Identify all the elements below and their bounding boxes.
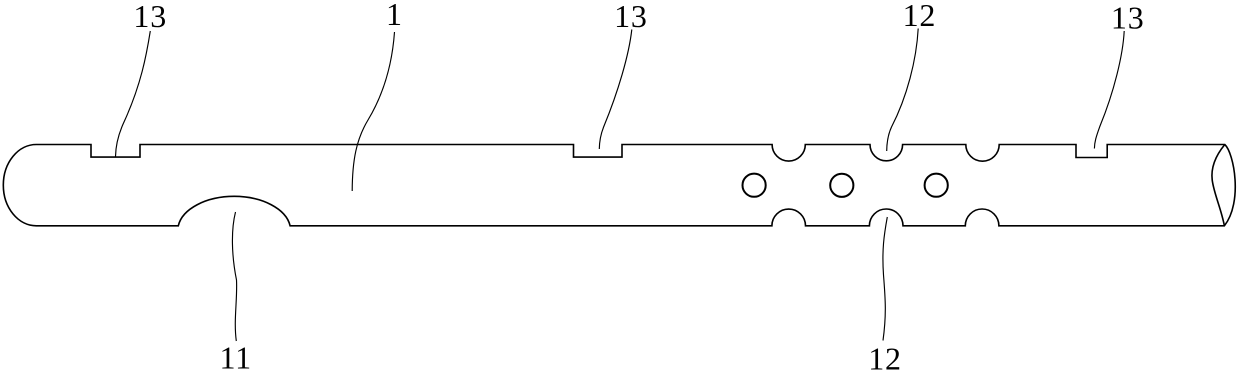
leader line to notch 12 (top): [887, 29, 919, 152]
svg-text:1: 1: [386, 0, 402, 32]
leader line to notch 13 (first): [116, 31, 151, 157]
svg-text:13: 13: [1111, 0, 1145, 35]
hole 12 right: [925, 174, 948, 197]
svg-text:12: 12: [903, 0, 937, 33]
hole 12 middle: [830, 174, 853, 197]
break line (S-curve) at right end: [1212, 145, 1225, 226]
svg-text:13: 13: [614, 0, 648, 34]
svg-text:13: 13: [133, 0, 167, 34]
bar body outline (part 1): [3, 145, 1235, 226]
svg-text:12: 12: [868, 340, 902, 371]
leader line to recess 11: [232, 212, 236, 341]
leader line to notch 13 (third): [1094, 31, 1124, 149]
leader line to surface 1: [352, 32, 394, 191]
svg-text:11: 11: [220, 340, 252, 371]
hole 12 left: [743, 174, 766, 197]
leader line to notch 13 (second): [599, 30, 632, 150]
leader line to notch 12 (bottom): [883, 217, 887, 341]
